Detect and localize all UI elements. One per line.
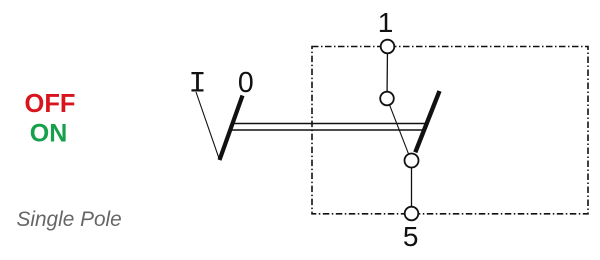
- svg-text:ON: ON: [30, 119, 68, 147]
- wire moving contact to terminal 5: [411, 161, 413, 214]
- svg-text:OFF: OFF: [25, 90, 76, 118]
- wire terminal 1 to pivot: [386, 47, 389, 99]
- actuator lever thick arm: [220, 96, 243, 161]
- pivot contact circle: [380, 92, 394, 106]
- terminal circle 5: [405, 207, 419, 221]
- wire upper horizontal link: [232, 123, 427, 125]
- switch body dashed enclosure: [312, 47, 588, 214]
- terminal circle 1: [381, 40, 395, 54]
- actuator lever thin arm: [196, 92, 220, 160]
- wire lower horizontal link: [230, 129, 425, 131]
- wire pivot to moving contact (thin diagonal): [390, 105, 409, 154]
- moving contact circle: [405, 154, 419, 168]
- svg-text:Single Pole: Single Pole: [17, 208, 122, 231]
- svg-text:0: 0: [238, 67, 254, 99]
- svg-text:5: 5: [403, 221, 419, 252]
- contact blade (thick): [415, 91, 439, 152]
- svg-text:1: 1: [378, 7, 394, 38]
